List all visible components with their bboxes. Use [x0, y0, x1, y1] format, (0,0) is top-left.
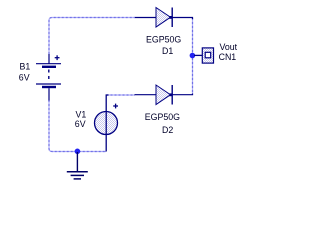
connector CN1: [202, 48, 213, 63]
diode D2: [156, 85, 172, 105]
wire D2 cathode to right corner: [172, 94, 193, 95]
label CN1: [219, 52, 237, 62]
svg-text:D2: D2: [162, 125, 173, 135]
wire D1 cathode to right corner: [172, 18, 193, 20]
label 6V of V1: [75, 119, 86, 129]
label B1: [20, 62, 31, 72]
svg-text:6V: 6V: [19, 73, 30, 83]
wire D2 anode lead: [135, 94, 157, 96]
wire battery+ to D1 anode (selected, light blue): [49, 18, 135, 55]
battery plus sign: [55, 55, 60, 60]
wire node to CN1: [194, 54, 202, 56]
wire battery- to V1- bottom rail (selected, light blue): [49, 100, 106, 152]
svg-text:EGP50G: EGP50G: [146, 35, 181, 45]
svg-text:EGP50G: EGP50G: [145, 112, 180, 122]
label D2: [162, 125, 173, 135]
V1 plus sign: [113, 104, 118, 109]
label EGP50G of D1: [146, 35, 181, 45]
svg-text:6V: 6V: [75, 119, 86, 129]
svg-text:B1: B1: [20, 62, 31, 72]
label Vout: [220, 42, 238, 52]
label V1: [76, 110, 87, 120]
wire right vertical D1/D2 cathodes to CN1 node (selected, light blue): [192, 18, 194, 95]
label D1: [162, 46, 173, 56]
svg-text:CN1: CN1: [219, 52, 237, 62]
wire D1 anode lead: [135, 17, 156, 19]
source V1: [95, 95, 118, 152]
diode D1: [156, 8, 172, 28]
battery B1: [36, 54, 61, 101]
node dot output junction: [190, 53, 196, 59]
wire V1+ to D2 anode (selected, light blue): [107, 94, 136, 96]
label EGP50G of D2: [145, 112, 180, 122]
svg-text:Vout: Vout: [220, 42, 238, 52]
svg-text:V1: V1: [76, 110, 87, 120]
label 6V of B1: [19, 73, 30, 83]
node dot ground junction: [75, 149, 81, 155]
svg-text:D1: D1: [162, 46, 173, 56]
ground: [67, 152, 88, 179]
